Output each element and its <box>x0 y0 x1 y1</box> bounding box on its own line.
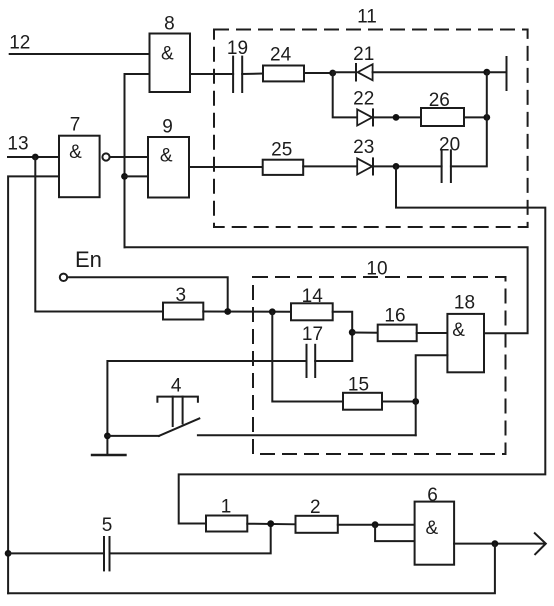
and gate U18 <box>447 293 484 373</box>
svg-text:19: 19 <box>227 38 248 59</box>
junction after R24 <box>329 70 336 77</box>
wire En to junction <box>67 277 227 311</box>
svg-text:24: 24 <box>270 45 292 66</box>
svg-text:23: 23 <box>353 137 374 158</box>
wire junction down to D22 row <box>333 73 357 117</box>
wire C17 right to junction <box>315 360 352 362</box>
capacitor C20 <box>439 135 460 183</box>
junction R16 row <box>349 329 356 336</box>
terminal En <box>60 247 102 281</box>
resistor R24 <box>263 45 304 82</box>
svg-text:13: 13 <box>7 134 28 155</box>
svg-text:2: 2 <box>310 497 321 518</box>
wire R16 to U18 <box>417 332 448 334</box>
junction D22 out <box>393 114 400 121</box>
svg-text:21: 21 <box>353 44 374 65</box>
capacitor C5 <box>102 515 113 570</box>
svg-text:&: & <box>160 146 173 167</box>
svg-text:16: 16 <box>384 306 405 327</box>
svg-text:3: 3 <box>176 285 187 306</box>
junction left rail cap tap <box>5 550 12 557</box>
wire right rail of block 11 <box>451 72 487 166</box>
svg-text:11: 11 <box>357 7 377 28</box>
svg-text:En: En <box>75 247 102 272</box>
junction D23 out <box>393 163 400 170</box>
wire junction to D21 <box>333 71 356 73</box>
diode D23 <box>353 137 374 175</box>
nand gate U7 <box>59 115 110 198</box>
wire U7 output to U9 input1 <box>110 156 148 158</box>
and gate U8 <box>150 14 191 93</box>
junction En node <box>224 308 231 315</box>
wire input 12 <box>10 53 150 55</box>
wire R2 to U6 <box>338 524 415 526</box>
wire U9 output to R25 <box>189 166 263 168</box>
wire output node to bottom rail <box>8 544 495 594</box>
wire left rail to C5 <box>8 552 104 554</box>
dashed block 10 <box>253 259 506 455</box>
svg-text:6: 6 <box>427 485 438 506</box>
dashed block 11 <box>214 7 528 228</box>
and gate U6 <box>415 485 455 565</box>
wire C17 left run <box>107 361 306 454</box>
svg-text:1: 1 <box>221 497 232 518</box>
wire 13 node down to R3 <box>35 157 163 312</box>
diode D21 <box>353 44 374 81</box>
wire to U9 input2 <box>125 175 149 177</box>
junction R26 right <box>483 114 490 121</box>
wire R14 to R16 row <box>333 312 353 361</box>
svg-text:14: 14 <box>302 286 324 307</box>
junction R1 out <box>267 520 274 527</box>
wire C19 to R24 <box>242 73 263 76</box>
wire R15 input <box>272 312 343 402</box>
svg-text:22: 22 <box>353 89 374 110</box>
svg-text:&: & <box>161 44 174 65</box>
junction R2 out <box>372 521 379 528</box>
wire D23 to C20 <box>373 165 442 167</box>
and gate U9 <box>148 117 189 198</box>
svg-text:26: 26 <box>429 90 450 111</box>
junction R14 input node <box>269 308 276 315</box>
resistor R25 <box>263 140 304 175</box>
wire block11 output down right and to R1 <box>179 166 546 523</box>
capacitor C19 <box>227 38 248 92</box>
ground <box>92 454 126 456</box>
svg-text:18: 18 <box>454 293 475 314</box>
svg-text:9: 9 <box>162 117 173 138</box>
svg-text:8: 8 <box>164 14 175 35</box>
wire R1 to R2 <box>247 523 295 526</box>
wire left rail to U7 input2 <box>8 176 59 593</box>
resistor R15 <box>343 375 382 410</box>
svg-text:&: & <box>426 518 439 539</box>
resistor R26 <box>421 90 464 126</box>
resistor R16 <box>378 306 417 342</box>
svg-text:&: & <box>452 320 465 341</box>
wire R3 to R14 <box>203 311 291 313</box>
svg-text:25: 25 <box>271 140 292 161</box>
junction feedback to U9 input2 <box>121 173 128 180</box>
resistor R1 <box>206 497 247 532</box>
wire D22 to junction <box>373 116 421 118</box>
junction output node <box>492 540 499 547</box>
resistor R2 <box>296 497 338 533</box>
wire D21 to right junction <box>373 71 487 73</box>
svg-text:15: 15 <box>348 375 369 396</box>
wire R26 to right rail <box>464 116 487 118</box>
wire U8 output <box>190 73 233 75</box>
wire R24 to junction <box>304 72 333 74</box>
svg-text:20: 20 <box>439 135 460 156</box>
junction on 13 wire <box>32 154 39 161</box>
svg-text:12: 12 <box>9 33 30 54</box>
junction switch left node <box>104 433 111 440</box>
wire U6 input2 <box>375 525 415 541</box>
terminal plate <box>506 57 508 90</box>
svg-text:5: 5 <box>102 515 113 536</box>
junction D21 right <box>483 69 490 76</box>
wire feedback bottom run <box>125 247 528 333</box>
wire U6 output to arrow <box>454 543 545 545</box>
resistor R3 <box>163 285 203 320</box>
wire C5 to R1 output node <box>110 524 271 554</box>
svg-text:&: & <box>69 142 82 163</box>
junction R15 out <box>412 398 419 405</box>
svg-text:4: 4 <box>171 376 182 397</box>
diode D22 <box>353 89 374 126</box>
wire R25 to D23 <box>303 165 357 167</box>
wire feedback vertical to U8 input2 <box>125 74 150 247</box>
output arrow <box>535 533 546 554</box>
wire R15 to junction <box>382 401 416 403</box>
wire junction up to U18 input2 <box>416 355 448 435</box>
resistor R14 <box>291 286 333 320</box>
svg-text:7: 7 <box>70 115 81 136</box>
wire input 13 <box>8 156 59 158</box>
wire to terminal plate <box>487 71 506 73</box>
switch S4 <box>107 376 415 436</box>
svg-text:10: 10 <box>366 259 387 280</box>
svg-text:17: 17 <box>302 324 323 345</box>
wire junction to R16 <box>352 332 378 334</box>
capacitor C17 <box>302 324 323 377</box>
